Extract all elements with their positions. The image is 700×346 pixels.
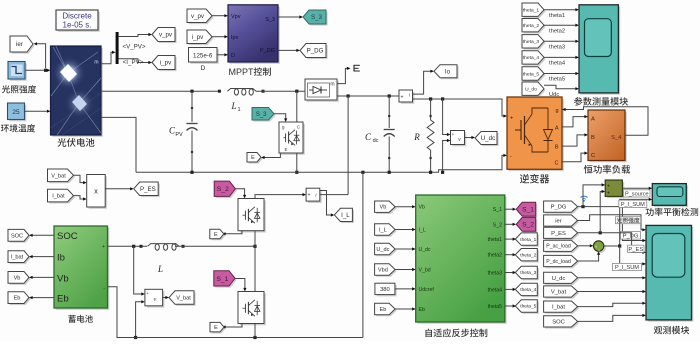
from tag I_L ctrl (375, 224, 397, 237)
goto tag theta_2 (515, 249, 539, 263)
svg-text:Eb: Eb (419, 307, 425, 313)
wire P_I_SUM down (620, 246, 646, 266)
goto tag Vb left (8, 272, 31, 285)
wire battery Vb out (29, 276, 54, 279)
svg-text:theta3: theta3 (549, 45, 565, 51)
svg-text:theta_1: theta_1 (523, 8, 540, 14)
caption 观测模块 (654, 326, 689, 334)
voltage sensor Udc (451, 131, 467, 147)
svg-text:P_ES: P_ES (628, 247, 643, 253)
PV array block 光伏电池 (51, 46, 103, 137)
label P_I_SUM box bottom (613, 263, 642, 271)
svg-text:I_L: I_L (379, 228, 387, 234)
wire control out S_1 (505, 208, 516, 211)
svg-text:+: + (607, 184, 610, 190)
ground symbol (354, 65, 360, 72)
inverter block 逆变器 (507, 97, 564, 171)
svg-text:V_bat: V_bat (551, 290, 567, 296)
wire L1 to diode (256, 90, 305, 93)
caption 环境温度 (1, 124, 35, 132)
current sensor I_L (306, 188, 322, 203)
label C_dc (365, 132, 379, 144)
wire battery plus (108, 245, 148, 248)
wire theta_5 to scope (544, 72, 579, 75)
svg-text:P_ac_load: P_ac_load (546, 244, 571, 250)
label L1 (230, 101, 240, 113)
svg-text:R: R (413, 132, 420, 142)
wire inverter B to load (562, 133, 588, 146)
goto tag Eb left (8, 292, 31, 305)
svg-text:U_dc: U_dc (552, 276, 566, 282)
wire V_bat to product (74, 175, 87, 184)
label I_PV (123, 59, 144, 66)
wire MPPT P_DG out (278, 49, 300, 52)
wire IGBT1 C to sensor (255, 193, 306, 199)
wire boost IGBT emitter (295, 153, 298, 174)
svg-text:I_L: I_L (419, 228, 426, 234)
caption 逆变器 (520, 174, 549, 183)
svg-text:P_DG: P_DG (623, 233, 639, 239)
svg-text:m: m (330, 82, 334, 88)
wire P_DG to adder (583, 183, 605, 206)
goto tag P_DG (300, 44, 328, 60)
goto tag E boost (247, 153, 263, 164)
svg-text:Vb: Vb (379, 205, 386, 211)
goto tag SOC left (8, 229, 31, 242)
svg-text:D: D (201, 65, 206, 72)
svg-text:v_pv: v_pv (191, 13, 205, 20)
svg-text:E: E (285, 147, 288, 152)
svg-text:PV: PV (175, 132, 183, 138)
goto tag S_1 magenta (516, 202, 537, 217)
caption 光伏电池 (57, 138, 94, 147)
svg-text:v: v (154, 297, 157, 303)
wire P_source to scope (622, 187, 652, 190)
adder block P_source (605, 180, 624, 198)
wire battery link vertical (347, 96, 349, 195)
svg-text:SOC: SOC (11, 233, 23, 239)
wire sum out (604, 198, 653, 248)
boost IGBT block (279, 122, 305, 155)
goto tag E igbt1 (210, 229, 226, 240)
svg-text:S_4: S_4 (611, 135, 622, 141)
svg-text:A: A (555, 126, 559, 132)
wire boost IGBT collector (296, 91, 298, 122)
IGBT2 block (238, 292, 266, 326)
goto tag U_dc (475, 132, 499, 147)
svg-text:Vb: Vb (419, 205, 425, 211)
from tag SOC col (544, 316, 580, 329)
wire L to midpoint (175, 245, 257, 248)
wire PV- down (101, 117, 136, 172)
from tag theta_5 (522, 67, 546, 82)
goto tag S_3 teal (303, 10, 328, 26)
caption 蓄电池 (68, 315, 92, 323)
svg-text:U_dc: U_dc (481, 135, 495, 142)
svg-text:E: E (251, 155, 255, 161)
svg-text:125e-6: 125e-6 (193, 52, 213, 59)
wire V_bat obs (578, 290, 646, 293)
wire U_dc obs (578, 276, 646, 279)
label V_PV (122, 44, 145, 51)
wire PV m to bus selector (101, 51, 116, 64)
current sensor Io (399, 90, 414, 104)
goto tag E igbt2 (210, 322, 226, 333)
wire v out (465, 136, 476, 139)
svg-text:x: x (94, 189, 98, 196)
wire S_2 to gate (235, 189, 246, 199)
svg-text:+: + (102, 244, 105, 250)
svg-text:Ipv: Ipv (231, 35, 239, 41)
svg-text:theta_5: theta_5 (520, 304, 536, 310)
svg-text:Udcref: Udcref (419, 287, 435, 293)
goto tag theta_4 (515, 283, 539, 297)
scope block 参数测量模块 (579, 5, 620, 95)
label L battery (157, 264, 163, 274)
from tag P_ac_load col (544, 240, 580, 253)
svg-text:+: + (598, 249, 601, 254)
from tag theta_4 (522, 51, 546, 66)
svg-text:+: + (401, 95, 404, 101)
wire battery I_bat out (29, 255, 54, 258)
from tag U_dc ctrl (375, 243, 397, 256)
goto tag Io (434, 65, 459, 80)
svg-text:theta_3: theta_3 (523, 39, 540, 45)
svg-text:C: C (297, 125, 300, 130)
svg-text:theta5: theta5 (549, 77, 565, 83)
sum block circle (593, 241, 605, 254)
label P_source box (624, 190, 651, 198)
product block (87, 175, 107, 209)
wire Vbd to control (395, 268, 416, 271)
wire i out to I_L tag (320, 191, 335, 217)
wire 380 to control (395, 287, 416, 290)
svg-text:v_pv: v_pv (159, 32, 173, 39)
wire control out theta_3 (505, 271, 516, 274)
svg-text:1: 1 (237, 107, 240, 113)
label P_ES box (628, 245, 645, 253)
wire battery minus (108, 287, 363, 339)
capacitor C_dc (384, 96, 395, 172)
wire control out theta_1 (505, 238, 516, 241)
wire 125e-6 to MPPT (217, 53, 228, 56)
svg-text:Eb: Eb (57, 294, 69, 305)
from tag theta_1 (522, 3, 546, 18)
wire theta_2 to scope (544, 24, 579, 27)
svg-text:P_DG: P_DG (260, 48, 275, 54)
wire rail right of Io (413, 97, 508, 117)
svg-text:g: g (555, 108, 558, 114)
wire control out theta_4 (505, 288, 516, 291)
svg-text:S_1: S_1 (522, 207, 534, 214)
svg-text:SOC: SOC (552, 320, 565, 326)
wire inverter C to load (562, 152, 588, 162)
wire to ier tag (34, 42, 46, 68)
label theta2 (549, 28, 565, 34)
wire v- battery (134, 300, 145, 339)
wire diode m to ground (337, 67, 351, 84)
wire P_ES route (578, 231, 646, 254)
diode block (305, 79, 339, 102)
svg-text:ier: ier (16, 41, 23, 48)
wire control out theta_2 (505, 253, 516, 256)
wire U_do to scope (544, 85, 579, 90)
svg-text:theta_5: theta_5 (523, 71, 540, 77)
from tag Vb ctrl (375, 201, 397, 214)
svg-text:+: + (146, 291, 149, 296)
svg-text:theta_2: theta_2 (520, 252, 536, 258)
wire step to PV (25, 69, 51, 72)
wire Eb to control (395, 307, 416, 310)
scope block 观测模块 (646, 225, 693, 321)
label theta5 (549, 77, 565, 83)
label R (413, 132, 420, 142)
wire SOC obs (578, 314, 646, 322)
svg-text:S_3: S_3 (311, 14, 323, 21)
svg-text:theta_4: theta_4 (520, 287, 536, 293)
wire to E tag (261, 153, 280, 159)
voltage sensor V_bat (145, 289, 165, 307)
caption 参数测量模块 (574, 97, 628, 106)
svg-text:theta_3: theta_3 (520, 270, 536, 276)
wire diode out rail (337, 94, 399, 97)
label P_DG box (621, 232, 641, 240)
Discrete sample time block (56, 10, 100, 32)
MPPT control block (228, 5, 280, 64)
wire I_bat obs (578, 302, 646, 307)
capacitor C_PV (187, 91, 198, 172)
svg-text:Eb: Eb (14, 296, 21, 302)
svg-text:I_L: I_L (341, 212, 350, 219)
label theta4 (549, 61, 566, 67)
svg-text:Vpv: Vpv (231, 14, 241, 20)
svg-text:Udc: Udc (549, 92, 559, 98)
svg-text:theta5: theta5 (488, 304, 503, 310)
svg-text:P_I_SUM: P_I_SUM (621, 202, 645, 208)
constant block 25 ambient temperature (8, 103, 27, 121)
svg-text:L: L (230, 101, 236, 111)
svg-text:C: C (365, 132, 372, 142)
from tag I_bat (48, 189, 76, 203)
logging badge (581, 196, 588, 202)
svg-text:V_bd: V_bd (419, 268, 431, 274)
svg-text:theta_4: theta_4 (523, 55, 540, 61)
scope block 功率平衡检测 (652, 184, 688, 207)
IGBT1 block (238, 199, 266, 233)
svg-text:A: A (591, 117, 595, 123)
from tag U_do (522, 82, 546, 97)
label P_I_SUM box top (619, 200, 647, 208)
svg-text:U_dc: U_dc (376, 247, 389, 253)
goto tag i_pv (152, 56, 177, 72)
svg-text:Vbd: Vbd (378, 268, 388, 274)
wire PV+ to L1 (101, 90, 221, 92)
bus selector (116, 32, 119, 64)
goto tag theta_5 (515, 300, 539, 314)
svg-text:B: B (591, 135, 595, 141)
goto tag ier (10, 36, 35, 54)
wire control out S_2 (505, 223, 516, 226)
svg-text:I_bat: I_bat (552, 305, 565, 311)
svg-text:S_2: S_2 (217, 186, 229, 193)
wire v+ battery (134, 246, 145, 295)
node C_PV top (190, 90, 193, 93)
wire MPPT S_3 out (278, 15, 303, 18)
goto tag theta_1 (515, 233, 539, 247)
wire theta_4 to scope (544, 56, 579, 59)
svg-text:theta2: theta2 (549, 28, 565, 34)
svg-text:1e-05 s.: 1e-05 s. (63, 21, 92, 30)
svg-text:E: E (214, 232, 218, 238)
wire theta_1 to scope (544, 8, 579, 11)
goto tag I_bat left (8, 251, 31, 264)
svg-text:Io: Io (445, 68, 451, 75)
label theta3 (549, 45, 565, 51)
from tag theta_2 (522, 19, 546, 34)
svg-text:i_pv: i_pv (160, 60, 172, 67)
caption 功率平衡检测 (646, 208, 699, 216)
svg-text:theta1: theta1 (549, 13, 565, 19)
resistor R (427, 99, 434, 172)
svg-text:theta4: theta4 (488, 287, 503, 293)
svg-text:I_bat: I_bat (11, 255, 24, 261)
from tag S_1 magenta (214, 271, 237, 288)
caption MPPT控制 (229, 67, 271, 77)
svg-text:U_do: U_do (525, 87, 537, 93)
caption 光照强度 (2, 85, 36, 93)
svg-text:V_bat: V_bat (51, 173, 66, 179)
battery block 蓄电池 (54, 226, 109, 310)
wire P_ES to adder (600, 190, 605, 233)
wire sensor to DC bus (320, 194, 348, 196)
svg-text:+: + (452, 132, 455, 137)
wire v_pv to MPPT (212, 14, 228, 17)
svg-text:C: C (555, 160, 559, 166)
wire IGBT2 E tag (222, 324, 242, 329)
svg-text:U_dc: U_dc (419, 247, 432, 253)
svg-text:E: E (214, 325, 218, 331)
svg-text:m: m (94, 60, 98, 66)
svg-text:+: + (510, 116, 513, 122)
inductor L1 (218, 89, 265, 96)
svg-text:P_I_SUM: P_I_SUM (615, 265, 639, 271)
from tag S_3 teal (252, 108, 276, 122)
svg-text:dc: dc (373, 138, 379, 144)
label 光照强度 box (616, 217, 641, 224)
constant power load block 恒功率负载 (588, 110, 627, 162)
svg-text:theta2: theta2 (488, 253, 503, 259)
wire battery Eb out (29, 296, 54, 299)
svg-text:L: L (157, 264, 163, 274)
label D (201, 65, 206, 72)
from tag V_bat (48, 169, 76, 183)
svg-text:SOC: SOC (57, 231, 78, 242)
wire P_dc_load to sum (578, 251, 601, 261)
wire I_L to control (395, 228, 416, 231)
svg-text:v: v (458, 137, 461, 143)
svg-text:S_1: S_1 (216, 276, 228, 283)
svg-text:25: 25 (12, 109, 20, 116)
from tag theta_3 (522, 35, 546, 50)
from tag S_2 magenta (214, 181, 237, 198)
wire S_3 to gate (274, 114, 287, 122)
caption 恒功率负载 (584, 165, 630, 174)
svg-text:P_dc_load: P_dc_load (546, 259, 571, 265)
constant block 125e-6 (189, 48, 219, 64)
svg-text:B: B (555, 145, 559, 151)
svg-text:Vb: Vb (57, 273, 69, 284)
svg-text:Discrete: Discrete (62, 12, 92, 21)
from tag Eb ctrl (375, 303, 397, 316)
svg-text:-: - (510, 154, 512, 160)
wire P_ac_load to sum (578, 244, 594, 247)
label Udc (549, 92, 559, 98)
from tag P_dc_load col (544, 255, 580, 268)
svg-text:V_bat: V_bat (176, 296, 191, 302)
svg-text:theta3: theta3 (488, 271, 503, 277)
svg-text:P_source: P_source (625, 191, 649, 197)
svg-text:S_3: S_3 (256, 112, 267, 118)
svg-text:P_ES: P_ES (140, 186, 156, 193)
wire battery SOC out (29, 234, 54, 237)
goto tag V_bat (169, 291, 196, 306)
svg-text:D: D (231, 53, 235, 59)
from tag i_pv (187, 30, 214, 45)
wire i to Io tag (413, 70, 435, 95)
wire bottom rail (136, 154, 507, 174)
svg-text:Vb: Vb (14, 275, 21, 281)
caption 自适应反步控制 (426, 329, 488, 338)
svg-text:theta1: theta1 (488, 237, 503, 243)
goto tag P_ES (134, 182, 160, 197)
svg-text:theta_2: theta_2 (523, 23, 540, 29)
from tag ier col (544, 215, 580, 228)
svg-text:P_DG: P_DG (307, 48, 324, 55)
wire vbat out (163, 296, 169, 299)
wire theta_3 to scope (544, 40, 579, 43)
svg-text:Ib: Ib (57, 253, 65, 264)
svg-text:<I_PV>: <I_PV> (123, 59, 144, 66)
wire v- branch (441, 139, 451, 174)
svg-text:ier: ier (555, 219, 562, 225)
svg-text:S_2: S_2 (493, 222, 502, 228)
adaptive backstepping control block (416, 195, 507, 324)
from tag V_bat col (544, 286, 580, 299)
goto tag I_L (334, 208, 354, 223)
label C_PV (169, 126, 183, 139)
from tag U_dc col (544, 272, 580, 285)
inductor L battery (140, 244, 185, 251)
wire ier route (578, 215, 646, 232)
wire i_pv to MPPT (212, 35, 228, 38)
svg-text:S_1: S_1 (493, 207, 502, 213)
wire S_4 feedback to inverter g (562, 107, 648, 136)
wire Vb to control (395, 205, 416, 208)
goto tag v_pv (152, 28, 177, 44)
from tag v_pv (187, 9, 214, 24)
wire inverter A to load (562, 115, 588, 127)
wire 25 to PV (25, 110, 51, 113)
wire IGBT2 E down (254, 324, 256, 338)
from tag I_bat col (544, 301, 580, 314)
svg-text:Eb: Eb (379, 307, 386, 313)
svg-text:theta_1: theta_1 (520, 237, 536, 243)
svg-text:<V_PV>: <V_PV> (122, 44, 145, 51)
svg-text:C: C (591, 153, 595, 159)
wire battery to main rail (362, 172, 364, 337)
goto tag S_2 magenta (516, 217, 537, 232)
svg-text:+: + (308, 193, 311, 199)
